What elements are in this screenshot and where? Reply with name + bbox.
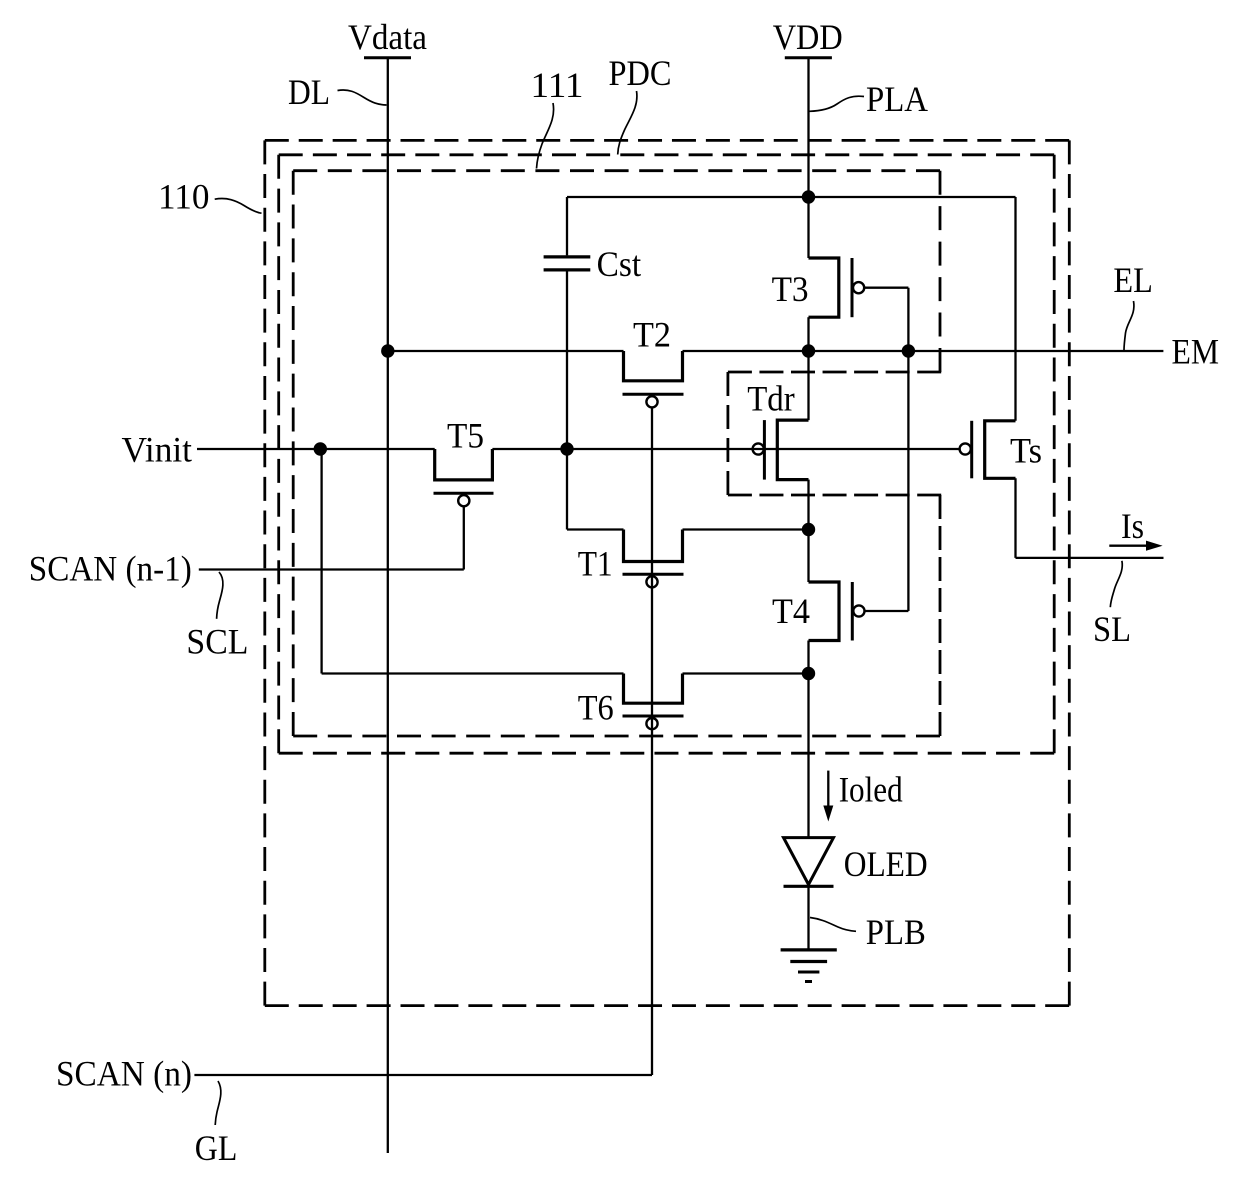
node junction Tdr source T1 <box>802 523 815 536</box>
wire EM line left segment <box>388 350 624 352</box>
wire T4 drain lead <box>807 530 809 583</box>
svg-text:EM: EM <box>1172 331 1220 371</box>
box 110 outer dashed boundary right <box>1068 140 1071 1005</box>
wire scan gate line x652 vertical <box>651 408 653 1076</box>
box Tdr dashed boundary top <box>728 371 941 374</box>
box PDC dashed boundary top <box>279 153 1054 156</box>
svg-text:Vinit: Vinit <box>122 430 193 470</box>
wire Cst top lead <box>566 197 568 255</box>
wire T1 top left segment <box>567 528 624 530</box>
wire EM line right segment <box>683 350 1164 352</box>
leader 110 <box>215 199 262 214</box>
node junction T4 source T6 <box>802 667 815 680</box>
svg-text:Tdr: Tdr <box>747 379 795 419</box>
wire VDD top node rail <box>567 196 1016 198</box>
box 111 dashed boundary top <box>293 169 940 172</box>
wire Tdr drain lead <box>807 351 809 420</box>
wire Vinit node down wire <box>320 449 322 674</box>
leader EL <box>1124 301 1134 350</box>
wire T4 gate stub <box>865 610 909 612</box>
transistor T4 <box>809 582 840 641</box>
ground <box>781 948 837 951</box>
wire T3 drain lead <box>807 197 809 258</box>
leader GL <box>215 1081 221 1125</box>
svg-text:T3: T3 <box>772 269 809 309</box>
transistor T5 <box>435 449 493 480</box>
wire Ts drain drop <box>1014 197 1016 421</box>
box PDC dashed boundary bottom <box>279 752 1054 755</box>
transistor Ts <box>985 421 1016 479</box>
leader SL <box>1110 561 1122 607</box>
box 111 dashed boundary left <box>292 171 295 736</box>
arrow Is <box>1109 545 1148 547</box>
node junction Vdata EM <box>381 344 394 357</box>
leader PLA <box>810 96 865 111</box>
wire Tdr source lead <box>807 480 809 530</box>
diode OLED <box>784 838 834 885</box>
svg-text:Ioled: Ioled <box>839 770 903 810</box>
svg-text:T1: T1 <box>578 544 613 584</box>
node junction Cst Vinit <box>560 442 573 455</box>
transistor Tdr <box>777 420 808 480</box>
wire Is output line <box>1016 557 1164 559</box>
terminal bar VDD <box>785 56 832 59</box>
transistor T3 <box>809 258 839 317</box>
box 110 outer dashed boundary top <box>265 139 1070 142</box>
svg-text:GL: GL <box>195 1128 238 1168</box>
svg-text:Vdata: Vdata <box>348 17 427 57</box>
wire Vinit line left segment <box>197 448 435 450</box>
wire SCAN(n) line <box>194 1074 652 1076</box>
svg-text:VDD: VDD <box>773 17 843 57</box>
svg-text:PLA: PLA <box>866 79 928 119</box>
node junction gate rail EM <box>902 344 915 357</box>
node junction VDD rail <box>802 190 815 203</box>
wire OLED cathode lead <box>807 886 809 949</box>
wire T3 source lead <box>807 317 809 351</box>
leader 111 <box>537 103 554 169</box>
svg-text:111: 111 <box>531 65 584 105</box>
box 110 outer dashed boundary bottom <box>265 1004 1070 1007</box>
svg-text:PDC: PDC <box>609 53 672 93</box>
box Tdr dashed boundary bottom <box>728 494 941 497</box>
wire T3 gate stub <box>864 287 908 289</box>
wire T5 gate lead <box>463 507 465 570</box>
svg-text:Cst: Cst <box>597 244 642 284</box>
wire PLA power line vertical <box>807 59 809 197</box>
wire T1 top right segment <box>683 528 809 530</box>
terminal bar Vdata <box>364 56 411 59</box>
node junction Vinit left <box>314 442 327 455</box>
wire T4 source lead <box>807 641 809 674</box>
svg-text:T4: T4 <box>772 591 810 631</box>
svg-text:DL: DL <box>288 72 330 112</box>
leader DL <box>338 90 387 105</box>
svg-text:SCAN (n): SCAN (n) <box>56 1054 192 1094</box>
svg-text:SL: SL <box>1093 609 1131 649</box>
wire Cst bottom lead down to Vinit node <box>566 272 568 530</box>
box PDC dashed boundary left <box>277 155 280 753</box>
transistor T2 <box>624 351 683 381</box>
wire SCAN(n-1) line <box>199 568 464 570</box>
box 111 dashed boundary bottom <box>293 735 940 738</box>
svg-text:OLED: OLED <box>844 844 928 884</box>
arrow Ioled <box>827 771 829 808</box>
transistor T1 <box>624 530 683 562</box>
leader PDC <box>618 91 637 155</box>
capacitor Cst <box>544 255 591 258</box>
svg-text:T6: T6 <box>578 688 614 728</box>
svg-text:SCL: SCL <box>186 622 248 662</box>
svg-text:T5: T5 <box>447 416 484 456</box>
wire T3 T4 gate rail vertical <box>907 288 909 611</box>
wire lower rail left segment <box>322 672 624 674</box>
box 111 dashed boundary right upper <box>939 171 942 372</box>
box 110 outer dashed boundary left <box>263 140 266 1005</box>
leader SCL <box>217 572 223 619</box>
transistor T6 <box>624 674 683 704</box>
wire Vinit line right segment through Tdr gate to Ts gate <box>492 448 959 450</box>
svg-text:SCAN (n-1): SCAN (n-1) <box>29 548 192 588</box>
wire OLED anode lead <box>807 674 809 838</box>
box PDC dashed boundary right <box>1053 155 1056 753</box>
node junction T3 source EM <box>802 344 815 357</box>
svg-text:Ts: Ts <box>1010 431 1042 471</box>
svg-text:110: 110 <box>158 177 210 217</box>
box Tdr dashed boundary left <box>727 372 730 495</box>
svg-text:PLB: PLB <box>866 912 926 952</box>
wire DL data line vertical <box>387 59 389 1153</box>
wire Ts source lead <box>1014 478 1016 558</box>
leader PLB <box>810 918 856 932</box>
wire lower rail right segment <box>683 672 809 674</box>
box 111 dashed boundary right lower <box>939 495 942 736</box>
svg-text:T2: T2 <box>633 315 671 355</box>
svg-text:Is: Is <box>1121 506 1144 546</box>
svg-text:EL: EL <box>1113 260 1153 300</box>
